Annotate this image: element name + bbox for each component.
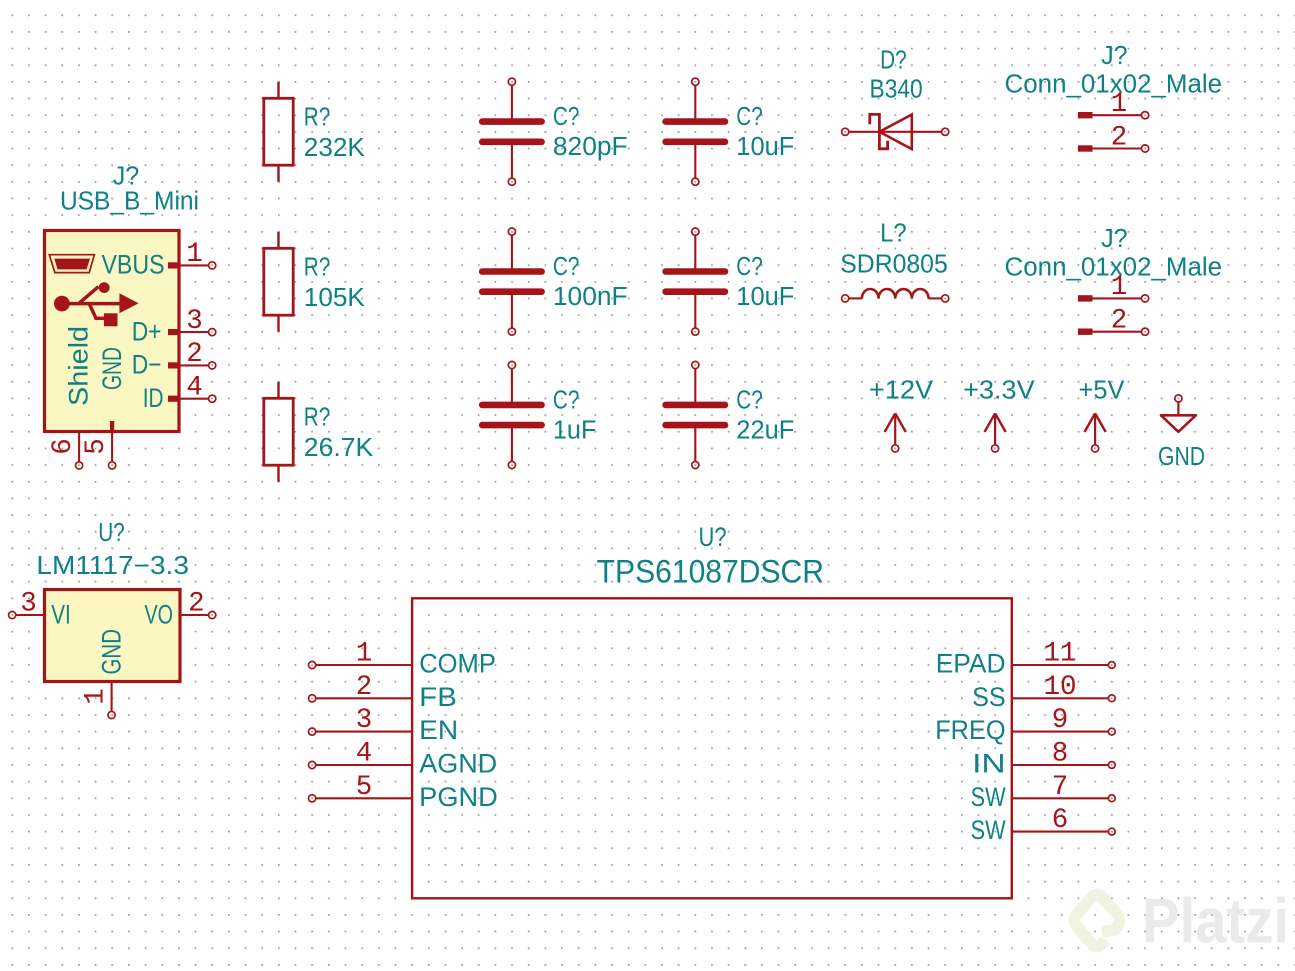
svg-text:11: 11 <box>1043 639 1076 670</box>
capacitor C1 pin 2 <box>511 142 513 178</box>
capacitor C4 plates <box>666 268 725 275</box>
svg-text:PGND: PGND <box>419 782 498 812</box>
capacitor C4 pin 2 <box>694 292 696 328</box>
svg-text:2: 2 <box>1111 306 1128 337</box>
svg-text:FREQ: FREQ <box>935 715 1005 745</box>
svg-text:ID: ID <box>143 383 164 413</box>
svg-text:R?: R? <box>304 103 331 131</box>
svg-text:TPS61087DSCR: TPS61087DSCR <box>597 554 824 590</box>
IC U2 body <box>412 598 1012 898</box>
svg-text:GND: GND <box>97 629 127 675</box>
svg-text:L?: L? <box>880 220 907 248</box>
power symbol +5V <box>1085 413 1106 452</box>
capacitor C2 plates <box>666 118 725 125</box>
svg-text:SDR0805: SDR0805 <box>840 250 948 278</box>
connector J1 pin 2 <box>1078 145 1093 151</box>
svg-text:2: 2 <box>356 672 373 703</box>
capacitor C3 pin 2 <box>511 292 513 328</box>
capacitor C6 plates <box>666 402 725 409</box>
svg-text:IN: IN <box>972 749 1006 779</box>
svg-text:VBUS: VBUS <box>102 250 165 280</box>
svg-text:J?: J? <box>1101 225 1128 253</box>
IC U2 pin 7 SW <box>971 772 1116 812</box>
capacitor C6 pin 1 <box>692 361 699 368</box>
svg-text:1: 1 <box>356 639 373 670</box>
svg-text:D−: D− <box>132 350 162 380</box>
svg-text:+12V: +12V <box>869 377 933 405</box>
svg-text:5: 5 <box>356 772 373 803</box>
svg-text:U?: U? <box>699 522 727 552</box>
svg-text:6: 6 <box>48 438 79 455</box>
svg-text:SW: SW <box>971 815 1006 845</box>
svg-text:C?: C? <box>553 387 580 415</box>
svg-text:+3.3V: +3.3V <box>963 377 1035 405</box>
svg-text:5: 5 <box>81 438 112 455</box>
connector J3 pin 3 D+ <box>132 306 216 347</box>
svg-text:3: 3 <box>20 588 37 619</box>
connector J3 pin 1 VBUS <box>102 239 216 280</box>
power symbol +12V <box>885 413 906 452</box>
svg-text:1uF: 1uF <box>553 417 597 445</box>
IC U2 pin 4 AGND <box>309 739 498 779</box>
inductor L1 pin 1 <box>842 295 849 302</box>
svg-text:Shield: Shield <box>64 326 94 406</box>
capacitor C5 pin 1 <box>508 361 515 368</box>
svg-text:COMP: COMP <box>419 649 496 679</box>
regulator U1 body <box>45 590 181 682</box>
capacitor C5 pin 2 <box>511 425 513 461</box>
svg-text:VI: VI <box>51 600 70 630</box>
svg-text:10: 10 <box>1043 672 1076 703</box>
resistor R1 body <box>264 98 293 165</box>
capacitor C3 plates <box>482 268 541 275</box>
regulator U1 pin 2 VO <box>145 588 216 629</box>
diode D1 body (Schottky) <box>879 115 911 150</box>
Platzi watermark icon <box>1074 894 1119 946</box>
svg-text:4: 4 <box>186 373 203 404</box>
svg-text:2: 2 <box>188 588 205 619</box>
svg-text:D+: D+ <box>132 316 162 346</box>
svg-text:EPAD: EPAD <box>936 649 1006 679</box>
IC U2 pin 8 IN <box>972 739 1115 779</box>
svg-text:B340: B340 <box>870 76 923 104</box>
diode D1 pin 1 (anode lead) <box>879 131 941 133</box>
connector J2 pin 2 <box>1078 329 1093 335</box>
resistor R3 body <box>264 398 293 465</box>
capacitor C6 pin 2 <box>694 425 696 461</box>
connector J3 body <box>45 231 180 432</box>
svg-text:FB: FB <box>419 682 457 712</box>
connector J3 mini-USB receptacle icon <box>49 255 94 273</box>
svg-text:820pF: 820pF <box>553 133 628 161</box>
svg-text:3: 3 <box>186 306 203 337</box>
capacitor C1 pin 1 <box>508 78 515 85</box>
resistor R1 lead top <box>277 82 279 99</box>
svg-text:4: 4 <box>356 739 373 770</box>
svg-text:D?: D? <box>880 47 907 75</box>
svg-text:2: 2 <box>1111 122 1128 153</box>
IC U2 pin 9 FREQ <box>935 705 1115 745</box>
power symbol +3.3V <box>985 413 1006 452</box>
IC U2 pin 10 SS <box>972 672 1115 712</box>
regulator U1 pin 3 VI <box>9 588 71 629</box>
connector J3 pin 6 Shield <box>48 326 93 469</box>
svg-text:R?: R? <box>304 403 331 431</box>
svg-text:GND: GND <box>97 347 127 390</box>
connector J1 pin 1 <box>1078 112 1093 118</box>
capacitor C3 pin 1 <box>508 228 515 235</box>
svg-text:GND: GND <box>1158 443 1205 471</box>
svg-text:C?: C? <box>553 103 580 131</box>
IC U2 pin 3 EN <box>309 705 459 745</box>
svg-text:SS: SS <box>972 682 1006 712</box>
resistor R3 lead bottom <box>277 465 279 482</box>
svg-text:C?: C? <box>553 253 580 281</box>
svg-text:J?: J? <box>113 163 140 191</box>
resistor R3 lead top <box>277 382 279 399</box>
inductor L1 pin 2 <box>929 297 942 299</box>
svg-text:R?: R? <box>304 253 331 281</box>
svg-text:9: 9 <box>1052 705 1069 736</box>
svg-text:U?: U? <box>98 519 125 547</box>
resistor R2 lead top <box>277 232 279 249</box>
resistor R1 lead bottom <box>277 165 279 182</box>
svg-text:+5V: +5V <box>1079 377 1125 405</box>
svg-text:J?: J? <box>1101 42 1128 70</box>
svg-text:SW: SW <box>971 782 1006 812</box>
connector J3 pin 5 GND <box>81 347 127 469</box>
IC U2 pin 2 FB <box>309 672 457 712</box>
svg-text:22uF: 22uF <box>736 417 794 445</box>
IC U2 pin 11 EPAD <box>936 639 1116 679</box>
svg-text:10uF: 10uF <box>736 283 794 311</box>
connector J3 USB trident icon <box>54 282 139 326</box>
svg-text:USB_B_Mini: USB_B_Mini <box>60 188 199 216</box>
svg-text:1: 1 <box>81 688 112 705</box>
capacitor C2 pin 1 <box>692 78 699 85</box>
svg-text:C?: C? <box>736 387 763 415</box>
svg-text:26.7K: 26.7K <box>304 434 373 462</box>
IC U2 pin 1 COMP <box>309 639 496 679</box>
svg-text:AGND: AGND <box>419 749 497 779</box>
svg-text:232K: 232K <box>304 134 365 162</box>
capacitor C1 plates <box>482 118 541 125</box>
svg-text:EN: EN <box>419 715 458 745</box>
svg-text:3: 3 <box>356 705 373 736</box>
svg-text:Platzi: Platzi <box>1142 887 1289 957</box>
regulator U1 pin 1 GND <box>81 629 127 719</box>
inductor L1 body (4 semicircle humps) <box>862 289 929 298</box>
IC U2 pin 6 SW <box>971 805 1116 845</box>
svg-text:8: 8 <box>1052 739 1069 770</box>
svg-text:7: 7 <box>1052 772 1069 803</box>
connector J2 pin 1 <box>1078 295 1093 301</box>
svg-text:10uF: 10uF <box>736 133 794 161</box>
svg-text:100nF: 100nF <box>553 283 628 311</box>
diode D1 pin 2 (cathode lead) <box>842 128 849 135</box>
svg-text:6: 6 <box>1052 805 1069 836</box>
resistor R2 body <box>264 248 293 315</box>
svg-text:2: 2 <box>186 339 203 370</box>
svg-text:1: 1 <box>1111 272 1128 303</box>
resistor R2 lead bottom <box>277 315 279 332</box>
capacitor C4 pin 1 <box>692 228 699 235</box>
svg-text:LM1117−3.3: LM1117−3.3 <box>36 552 189 580</box>
svg-text:105K: 105K <box>304 284 365 312</box>
IC U2 pin 5 PGND <box>309 772 498 812</box>
connector J3 pin 4 ID <box>143 373 216 414</box>
capacitor C2 pin 2 <box>694 142 696 178</box>
connector J3 pin 2 D- <box>132 339 216 380</box>
svg-text:C?: C? <box>736 103 763 131</box>
svg-text:1: 1 <box>186 239 203 270</box>
capacitor C5 plates <box>482 402 541 409</box>
ground symbol GND <box>1161 395 1196 432</box>
svg-text:VO: VO <box>145 600 174 630</box>
svg-text:1: 1 <box>1111 89 1128 120</box>
svg-text:C?: C? <box>736 253 763 281</box>
